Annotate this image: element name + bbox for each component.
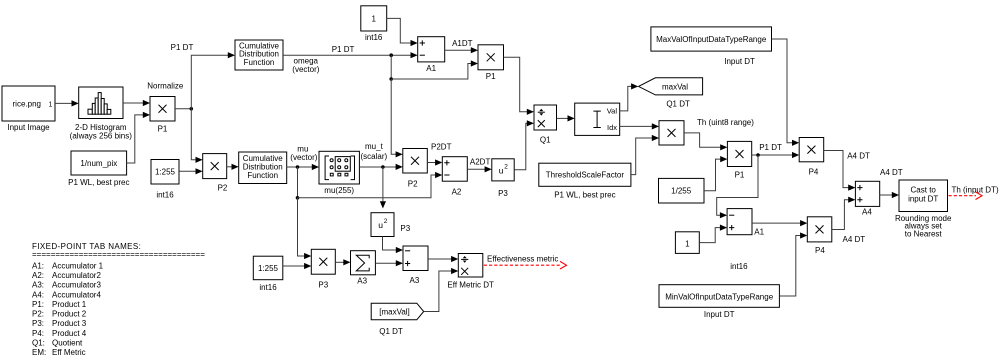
svg-text:(always 256 bins): (always 256 bins) (70, 131, 133, 140)
junction mu_t node (381, 165, 385, 169)
svg-text:P1 WL, best prec: P1 WL, best prec (68, 178, 129, 187)
svg-text:Eff Metric: Eff Metric (52, 348, 86, 357)
svg-text:P3: P3 (318, 280, 328, 289)
svg-text:int16: int16 (156, 191, 174, 200)
product block P1c (727, 141, 751, 166)
svg-text:A2:: A2: (32, 271, 44, 280)
svg-text:==============================: ===================================== (32, 250, 205, 259)
svg-text:1/num_pix: 1/num_pix (80, 159, 117, 168)
svg-text:P1 DT: P1 DT (171, 43, 194, 52)
svg-text:2: 2 (384, 218, 388, 225)
wire A4 -> Cast to input DT (880, 194, 894, 196)
wire mu_t down to squared block (382, 167, 384, 201)
svg-text:maxVal: maxVal (662, 82, 688, 91)
svg-text:Accumulator4: Accumulator4 (52, 290, 101, 299)
svg-text:Q1:: Q1: (32, 339, 45, 348)
sum block A2 (442, 157, 467, 182)
svg-text:P1: P1 (158, 125, 168, 134)
svg-text:Function: Function (247, 171, 278, 180)
svg-text:P1: P1 (735, 170, 745, 179)
svg-text:Product 3: Product 3 (52, 319, 87, 328)
svg-text:1/255: 1/255 (671, 187, 692, 196)
product block P2 (lower-left) (203, 154, 227, 179)
wire 1/num_pix -> product P1 (127, 115, 145, 163)
svg-text:1:255: 1:255 (258, 264, 279, 273)
red dashed output Th (input DT) (949, 195, 977, 197)
wire omega long down to product P2b upper input (391, 79, 397, 154)
svg-text:ThresholdScaleFactor: ThresholdScaleFactor (546, 171, 625, 180)
svg-text:A1DT: A1DT (452, 39, 473, 48)
constant block 1/255 (659, 178, 705, 203)
svg-text:P3: P3 (498, 189, 508, 198)
wire u^2 rotated out of bottom -> sum A3b minus input (383, 237, 398, 251)
svg-text:Input DT: Input DT (704, 310, 735, 319)
wire [maxVal] -> Eff Metric times input (424, 271, 453, 312)
svg-text:Q1 DT: Q1 DT (379, 327, 403, 336)
svg-text:Normalize: Normalize (147, 82, 184, 91)
wire 1:255 -> product P2 (179, 170, 197, 172)
wire mu down to product P3 (298, 198, 306, 256)
svg-text:P1 DT: P1 DT (759, 143, 782, 152)
wire junction up to Cumulative Distribution Function 1 (191, 55, 229, 109)
svg-text:Q1: Q1 (540, 135, 551, 144)
block MinMax (Val/Idx) (575, 103, 620, 135)
svg-text:Th (input DT): Th (input DT) (952, 185, 999, 194)
junction Th node (756, 153, 760, 157)
wire mu junction down (297, 167, 299, 198)
wire 1/255 -> product P1c lower input (704, 159, 722, 191)
constant block 1:255 (lower) (253, 256, 282, 280)
svg-text:Function: Function (244, 58, 275, 67)
wire mu to A2 minus input (298, 175, 437, 198)
wire A2 -> squared P3 (right) (467, 168, 486, 170)
svg-text:Accumulator 1: Accumulator 1 (52, 261, 104, 270)
svg-text:A1: A1 (426, 64, 436, 73)
svg-text:A3: A3 (357, 277, 367, 286)
svg-text:int16: int16 (730, 262, 748, 271)
wire P1b -> divide Q1 (504, 57, 529, 112)
wire u^2 -> divide Q1 times input (514, 123, 528, 170)
wire P1 -> junction (175, 108, 191, 110)
svg-text:P1: P1 (486, 72, 496, 81)
svg-text:EM:: EM: (32, 348, 46, 357)
constant block 1/num_pix (71, 151, 127, 175)
svg-text:1: 1 (685, 239, 690, 248)
svg-text:1:255: 1:255 (155, 168, 176, 177)
svg-text:Accumulator3: Accumulator3 (52, 281, 101, 290)
wire Th junction down to sum A1b minus input (717, 155, 758, 215)
wire P2b -> sum A2 plus input (427, 162, 436, 164)
product block P3c (311, 249, 335, 274)
constant block 1:255 (upper) (151, 160, 179, 185)
sum block A3b (403, 246, 428, 271)
wire Val -> Goto maxVal (620, 86, 633, 111)
constant block MaxValOfInputDataTypeRange (651, 27, 772, 51)
svg-text:P1 DT: P1 DT (332, 45, 355, 54)
wire P2 -> Cumulative Distribution Function 2 (227, 166, 233, 168)
svg-text:Product 2: Product 2 (52, 310, 87, 319)
wire constant 1 -> sum A1 plus input (387, 18, 412, 43)
product block P4b (807, 217, 832, 242)
constant block 1 (right) (675, 232, 699, 254)
sum block A4 (855, 181, 879, 206)
divide block Eff Metric (458, 254, 483, 278)
svg-text:Input DT: Input DT (724, 57, 755, 66)
wire A1 -> product P1b (445, 49, 473, 51)
svg-text:MinValOfInputDataTypeRange: MinValOfInputDataTypeRange (665, 292, 773, 301)
wire Idx -> product (Th) (620, 125, 654, 127)
wire P4b -> sum A4 lower input (832, 200, 850, 230)
constant block 1 (top) (361, 6, 387, 31)
product block P4a (799, 138, 824, 162)
svg-text:u: u (378, 220, 383, 230)
svg-text:P4: P4 (815, 246, 825, 255)
wire Q1 -> MinMax (557, 117, 569, 119)
svg-text:mu(255): mu(255) (324, 186, 354, 195)
svg-text:input DT: input DT (908, 195, 938, 204)
svg-text:P2: P2 (408, 180, 418, 189)
From tag [maxVal] (371, 303, 424, 320)
svg-text:P4: P4 (809, 168, 819, 177)
svg-text:MaxValOfInputDataTypeRange: MaxValOfInputDataTypeRange (656, 35, 767, 44)
junction on P1 output (190, 107, 194, 111)
svg-text:int16: int16 (365, 33, 383, 42)
math square block u^2 (right of A2) (492, 159, 514, 181)
svg-text:A4 DT: A4 DT (847, 152, 870, 161)
wire junction down to product P2 (191, 109, 197, 160)
svg-text:omega: omega (294, 57, 319, 66)
selector block mu(255) (319, 151, 359, 184)
wire Th product -> product P1c upper input (684, 133, 722, 147)
junction mu lower node (296, 196, 300, 200)
svg-text:A3:: A3: (32, 281, 44, 290)
svg-text:to Nearest: to Nearest (905, 230, 943, 239)
svg-text:A4 DT: A4 DT (843, 235, 866, 244)
svg-text:P3:: P3: (32, 319, 44, 328)
svg-text:A2DT: A2DT (470, 158, 491, 167)
wire P4a -> sum A4 upper input (824, 151, 850, 188)
red dashed output Effectiveness metric (484, 264, 560, 266)
svg-text:Eff Metric DT: Eff Metric DT (447, 281, 494, 290)
svg-text:Val: Val (607, 107, 618, 116)
wire MaxValOfInputDataTypeRange -> product P4a upper input (772, 39, 794, 143)
block Cast to input DT (899, 180, 948, 212)
svg-text:Quotient: Quotient (52, 339, 83, 348)
svg-text:P3: P3 (400, 224, 410, 233)
svg-text:1: 1 (49, 102, 53, 109)
svg-text:(scalar): (scalar) (361, 152, 388, 161)
divide block Q1 (534, 105, 557, 130)
svg-text:Q1 DT: Q1 DT (666, 99, 690, 108)
svg-text:Th (uint8 range): Th (uint8 range) (697, 118, 754, 127)
svg-text:P1 WL, best prec: P1 WL, best prec (554, 190, 615, 199)
svg-text:Product 1: Product 1 (52, 300, 87, 309)
block Cumulative Distribution Function 2 (239, 152, 287, 184)
product block P1b (top) (478, 45, 504, 70)
sum block A3a (sigma) (351, 251, 376, 275)
source block Input Image (rice.png) (2, 86, 55, 121)
sum block A1b (727, 209, 752, 235)
constant block ThresholdScaleFactor (539, 163, 631, 186)
junction omega lower node (389, 77, 393, 81)
junction mu node (296, 165, 300, 169)
svg-text:1: 1 (371, 14, 376, 23)
svg-text:u: u (499, 165, 504, 175)
svg-text:P4:: P4: (32, 329, 44, 338)
svg-text:A4 DT: A4 DT (880, 168, 903, 177)
wire A3a -> sum A3b plus input (375, 262, 397, 264)
svg-text:P2:: P2: (32, 310, 44, 319)
svg-text:Product 4: Product 4 (52, 329, 87, 338)
Goto tag maxVal (639, 78, 703, 95)
svg-text:(vector): (vector) (290, 153, 317, 162)
svg-text:Effectiveness metric: Effectiveness metric (487, 255, 558, 264)
svg-text:A1: A1 (754, 228, 764, 237)
svg-text:A4: A4 (862, 208, 872, 217)
wire Input Image -> 2-D Histogram (55, 102, 73, 104)
svg-text:P2: P2 (218, 184, 228, 193)
svg-text:[maxVal]: [maxVal] (379, 307, 410, 316)
svg-text:mu_t: mu_t (365, 142, 384, 151)
math square block u^2 (rotated, below mu_t) (371, 213, 394, 237)
block 2-D Histogram (79, 87, 123, 119)
wire 1:255 -> product P3c (283, 265, 306, 267)
svg-text:P2DT: P2DT (431, 143, 452, 152)
wire omega junction down (390, 55, 392, 79)
svg-text:Accumulator2: Accumulator2 (52, 271, 101, 280)
wire A1b -> product P4b upper input (752, 222, 802, 224)
svg-text:(vector): (vector) (292, 65, 319, 74)
wire mu(255) -> product P2b with junction (359, 166, 397, 168)
svg-text:A3: A3 (410, 276, 420, 285)
svg-text:P1:: P1: (32, 300, 44, 309)
svg-text:2: 2 (504, 163, 508, 170)
product block Th (uint8) (659, 121, 684, 145)
svg-text:Input Image: Input Image (7, 123, 50, 132)
svg-text:A2: A2 (452, 187, 462, 196)
svg-text:A1:: A1: (32, 261, 44, 270)
wire P1c -> product P4a lower input with junction (752, 154, 794, 156)
wire ThresholdScaleFactor -> product (Th) lower input (631, 138, 653, 175)
wire P3c -> sum A3a (335, 261, 344, 263)
svg-text:Idx: Idx (607, 123, 617, 132)
svg-text:Cast to: Cast to (911, 186, 937, 195)
block Cumulative Distribution Function 1 (235, 40, 283, 70)
wire omega to product P1b lower input (391, 64, 472, 80)
sum block A1 (top) (418, 37, 445, 62)
junction omega node (389, 53, 393, 57)
product block P2b (mid) (403, 149, 428, 174)
svg-text:rice.png: rice.png (13, 100, 41, 109)
wire CDF2 -> mu(255) selector with junction (287, 166, 314, 168)
svg-text:int16: int16 (259, 283, 277, 292)
wire MinValOfInputDataTypeRange -> product P4b lower input (779, 236, 801, 297)
wire A3b -> Eff Metric divide input (428, 258, 453, 260)
wire 2-D Histogram -> product P1 (123, 102, 144, 104)
wire CDF1 -> sum A1 minus input (long, with junctions) (283, 54, 412, 56)
wire constant 1 -> sum A1b plus input (699, 228, 721, 243)
constant block MinValOfInputDataTypeRange (659, 285, 779, 308)
svg-text:A4:: A4: (32, 290, 44, 299)
